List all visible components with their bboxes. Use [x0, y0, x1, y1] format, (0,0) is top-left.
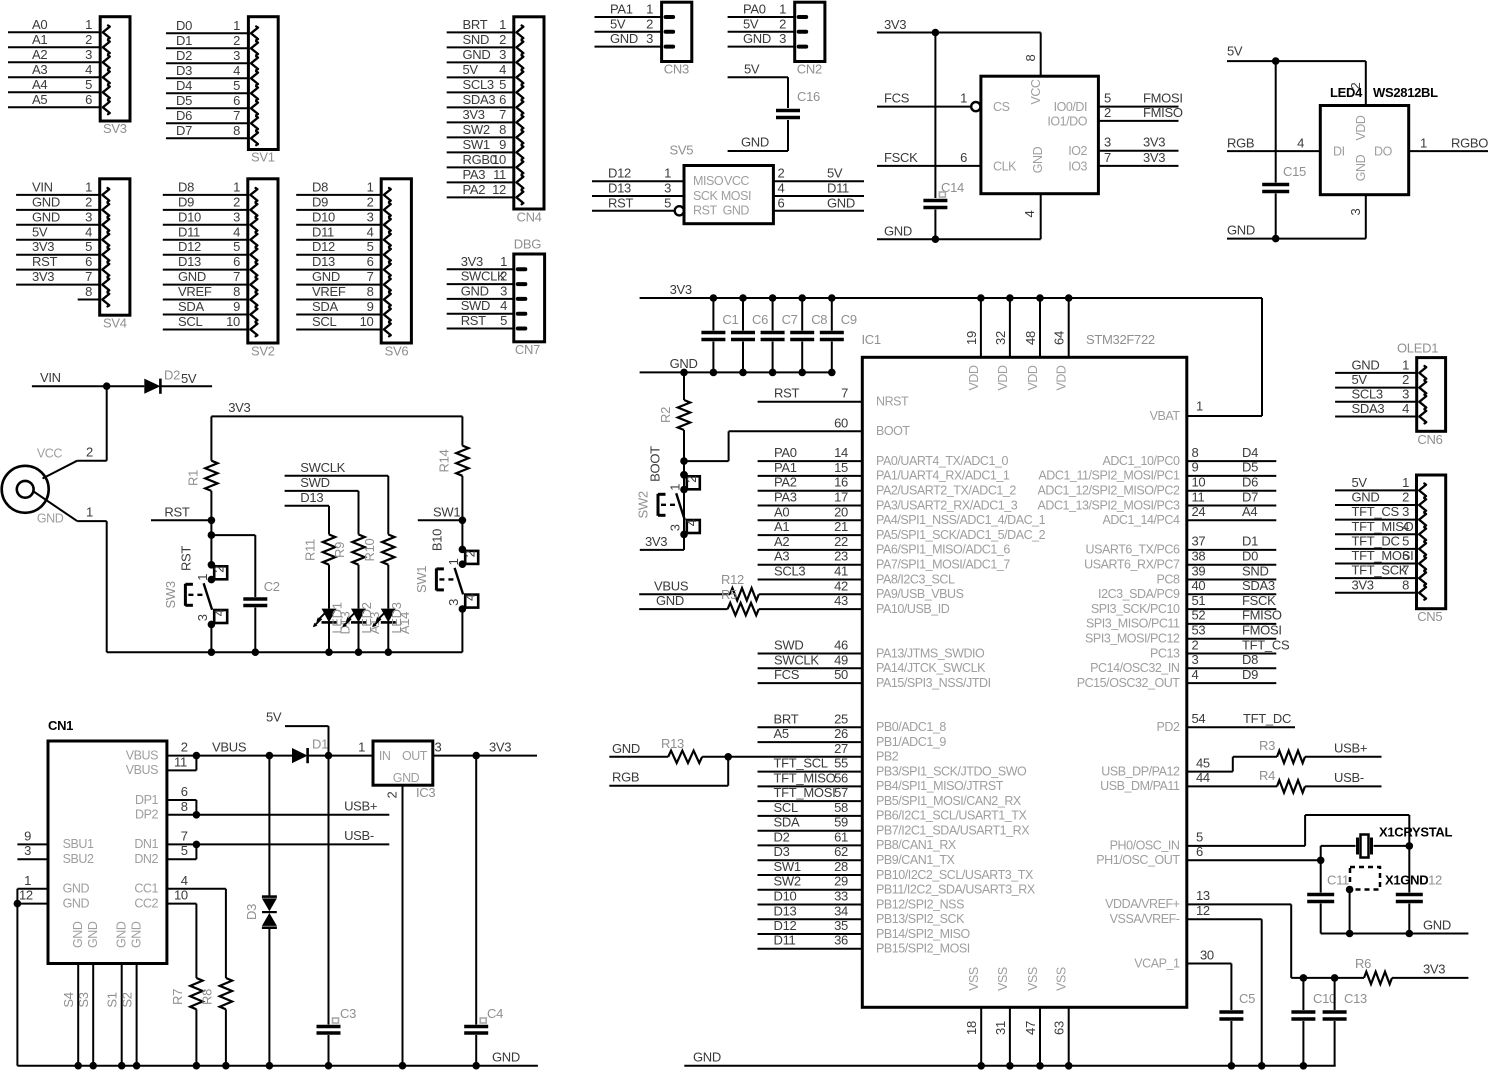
- IC1 STM32F722 body: [862, 332, 1187, 1007]
- svg-text:DP2: DP2: [135, 808, 158, 822]
- LED LED3: [372, 602, 412, 656]
- svg-text:SV1: SV1: [251, 150, 275, 165]
- CN1 inner bottom GND labels: [71, 921, 143, 948]
- svg-text:51: 51: [1192, 593, 1206, 608]
- wire D5 pin 9: [1187, 460, 1277, 476]
- wire FMISO pin2: [1098, 120, 1178, 122]
- svg-text:2: 2: [385, 791, 400, 798]
- wire LED4 GND pin3: [1365, 195, 1367, 239]
- svg-text:5V: 5V: [744, 61, 760, 76]
- svg-text:49: 49: [834, 652, 848, 667]
- svg-text:IC3: IC3: [416, 785, 435, 800]
- svg-text:55: 55: [834, 756, 848, 771]
- wire 3V3 pin3: [1098, 150, 1178, 152]
- wire D1 pin 37: [1187, 534, 1277, 550]
- svg-text:C15: C15: [1283, 164, 1306, 179]
- svg-text:29: 29: [834, 874, 848, 889]
- svg-text:USB_DM/PA11: USB_DM/PA11: [1100, 779, 1180, 793]
- svg-text:1: 1: [500, 254, 507, 269]
- capacitor C15: [1262, 61, 1306, 239]
- svg-text:3: 3: [446, 599, 461, 606]
- wire USB_DP pin 45: [1187, 755, 1277, 771]
- svg-text:PB1/ADC1_9: PB1/ADC1_9: [876, 735, 946, 749]
- svg-text:D11: D11: [312, 224, 334, 239]
- svg-text:D4: D4: [176, 78, 192, 93]
- junction 5V LED4: [1272, 57, 1280, 65]
- svg-text:RST: RST: [461, 313, 486, 328]
- svg-text:USB+: USB+: [344, 799, 377, 814]
- svg-text:PB9/CAN1_TX: PB9/CAN1_TX: [876, 853, 956, 867]
- capacitor C4: [464, 756, 503, 1070]
- svg-text:4: 4: [367, 224, 374, 239]
- svg-text:D13: D13: [608, 181, 631, 196]
- svg-text:IO2: IO2: [1068, 144, 1087, 158]
- svg-text:1: 1: [499, 17, 506, 32]
- pin 3 SBU2: [17, 843, 94, 866]
- svg-text:11: 11: [174, 754, 187, 769]
- connector SV1: [166, 17, 278, 150]
- svg-text:RST: RST: [774, 386, 799, 401]
- svg-text:CN4: CN4: [517, 210, 542, 225]
- svg-text:PA3/USART2_RX/ADC1_3: PA3/USART2_RX/ADC1_3: [876, 498, 1018, 512]
- svg-text:SW1: SW1: [774, 859, 801, 874]
- wire GND rail (CN1): [17, 1050, 538, 1066]
- svg-text:17: 17: [834, 490, 848, 505]
- svg-text:6: 6: [85, 254, 92, 269]
- wire LED4 VDD pin2: [1365, 61, 1367, 105]
- svg-text:43: 43: [834, 593, 848, 608]
- svg-text:2: 2: [778, 166, 785, 181]
- svg-text:1: 1: [646, 2, 653, 17]
- svg-text:D12: D12: [774, 918, 797, 933]
- svg-text:S1: S1: [105, 992, 120, 1007]
- wire D9 pin 4: [1187, 667, 1277, 683]
- svg-text:16: 16: [834, 475, 848, 490]
- svg-text:5V: 5V: [463, 62, 479, 77]
- connector CN6 OLED1: [1335, 340, 1446, 431]
- svg-text:R9: R9: [332, 542, 347, 558]
- pin 62 PB9/CAN1_TX: [758, 844, 956, 867]
- svg-text:FSCK: FSCK: [1242, 593, 1276, 608]
- svg-text:GND: GND: [32, 209, 60, 224]
- svg-text:24: 24: [1192, 504, 1206, 519]
- pin 5 DN2: [134, 843, 196, 866]
- svg-text:3: 3: [664, 181, 671, 196]
- svg-text:PB12/SPI2_NSS: PB12/SPI2_NSS: [876, 897, 964, 911]
- svg-text:RST: RST: [178, 546, 193, 571]
- svg-text:VDD: VDD: [1354, 115, 1368, 140]
- svg-text:8: 8: [499, 122, 506, 137]
- pin 10 CC2: [134, 888, 196, 978]
- svg-text:2: 2: [499, 32, 506, 47]
- pin 20 PA4/SPI1_NSS/ADC1_4/DAC_1: [758, 504, 1046, 527]
- svg-text:15: 15: [834, 460, 848, 475]
- svg-text:3: 3: [85, 209, 92, 224]
- svg-text:40: 40: [1192, 578, 1206, 593]
- svg-text:PA2: PA2: [774, 475, 797, 490]
- junction DN1: [193, 841, 201, 849]
- svg-text:SDA3: SDA3: [463, 92, 496, 107]
- svg-text:3V3: 3V3: [1143, 150, 1165, 165]
- svg-text:4: 4: [233, 63, 240, 78]
- svg-text:12: 12: [492, 182, 506, 197]
- svg-text:SV6: SV6: [385, 344, 409, 359]
- wire VDD pin 19: [964, 294, 985, 357]
- svg-text:IO0/DI: IO0/DI: [1054, 100, 1087, 114]
- resistor R12: [721, 572, 759, 601]
- svg-text:SCL3: SCL3: [1352, 386, 1383, 401]
- svg-text:D8: D8: [178, 179, 194, 194]
- capacitor C11: [1307, 873, 1349, 934]
- svg-text:31: 31: [993, 1021, 1008, 1035]
- svg-text:4: 4: [684, 519, 699, 526]
- svg-text:PA1: PA1: [610, 2, 633, 17]
- pin shield S4: [61, 964, 82, 1070]
- svg-text:GND: GND: [693, 1050, 721, 1065]
- svg-text:R3: R3: [1259, 738, 1275, 753]
- svg-text:SDA: SDA: [312, 299, 338, 314]
- svg-text:D11: D11: [178, 224, 200, 239]
- svg-text:CC1: CC1: [134, 882, 158, 896]
- svg-text:1: 1: [233, 18, 240, 33]
- svg-text:9: 9: [1192, 460, 1199, 475]
- svg-text:23: 23: [834, 549, 848, 564]
- svg-text:1: 1: [1196, 399, 1203, 414]
- svg-text:4: 4: [462, 594, 477, 601]
- svg-text:PB7/I2C1_SDA/USART1_RX: PB7/I2C1_SDA/USART1_RX: [876, 824, 1030, 838]
- svg-text:38: 38: [1192, 549, 1206, 564]
- svg-text:2: 2: [233, 194, 240, 209]
- svg-text:5: 5: [233, 78, 240, 93]
- pin 35 PB14/SPI2_MISO: [758, 918, 971, 941]
- svg-text:58: 58: [834, 800, 848, 815]
- svg-text:PA7/SPI1_MOSI/ADC1_7: PA7/SPI1_MOSI/ADC1_7: [876, 558, 1010, 572]
- capacitor C7: [761, 294, 798, 376]
- svg-text:3V3: 3V3: [461, 254, 483, 269]
- pin 21 PA5/SPI1_SCK/ADC1_5/DAC_2: [758, 519, 1046, 542]
- svg-text:7: 7: [233, 108, 240, 123]
- svg-text:3: 3: [233, 209, 240, 224]
- svg-text:IO1/DO: IO1/DO: [1047, 114, 1087, 128]
- connector CN4: [447, 17, 544, 209]
- svg-text:SBU1: SBU1: [63, 837, 94, 851]
- LED LED4 WS2812B body: [1320, 85, 1438, 195]
- pin 4 CC1: [134, 873, 226, 978]
- svg-text:D10: D10: [178, 209, 201, 224]
- svg-text:CN2: CN2: [797, 62, 822, 77]
- wire VCAP_1 pin 30: [1187, 947, 1232, 1010]
- svg-text:D2: D2: [164, 368, 180, 383]
- svg-text:5V: 5V: [181, 371, 197, 386]
- svg-text:SWD: SWD: [300, 475, 329, 490]
- svg-text:7: 7: [841, 386, 848, 401]
- svg-text:D6: D6: [176, 108, 192, 123]
- svg-text:61: 61: [834, 829, 848, 844]
- svg-text:D8: D8: [312, 179, 328, 194]
- junction 5V/C3: [325, 752, 333, 760]
- svg-text:52: 52: [1192, 608, 1206, 623]
- wire C16 to GND: [787, 120, 789, 151]
- svg-text:VCC: VCC: [37, 446, 62, 460]
- connector SV5 ISP: [592, 143, 864, 224]
- svg-text:R13: R13: [661, 736, 684, 751]
- wire VDD pin 48: [1023, 294, 1044, 357]
- junction PB2/RGB: [724, 753, 732, 761]
- svg-text:RGBO: RGBO: [1451, 136, 1488, 151]
- svg-text:4: 4: [499, 62, 506, 77]
- svg-text:5: 5: [500, 313, 507, 328]
- svg-text:PB2: PB2: [876, 750, 899, 764]
- svg-text:VDD: VDD: [967, 365, 981, 390]
- pin 7 DN1: [134, 828, 196, 851]
- svg-text:D9: D9: [178, 194, 194, 209]
- svg-text:3: 3: [1402, 386, 1409, 401]
- svg-text:PA0/UART4_TX/ADC1_0: PA0/UART4_TX/ADC1_0: [876, 454, 1009, 468]
- svg-text:ADC1_11/SPI2_MOSI/PC1: ADC1_11/SPI2_MOSI/PC1: [1038, 469, 1180, 483]
- svg-text:2: 2: [779, 16, 786, 31]
- capacitor C12: [1396, 873, 1442, 934]
- pin 16 PA2/USART2_TX/ADC1_2: [758, 475, 1017, 498]
- wire USB- (CN1): [196, 843, 389, 845]
- svg-text:C3: C3: [340, 1006, 356, 1021]
- svg-text:C16: C16: [797, 89, 820, 104]
- svg-text:SBU2: SBU2: [63, 852, 94, 866]
- pin 58 PB6/I2C1_SCL/USART1_TX: [758, 800, 1028, 823]
- junction flash 3V3: [932, 29, 940, 37]
- junction DP2: [193, 811, 201, 819]
- svg-text:41: 41: [834, 564, 848, 579]
- svg-text:63: 63: [1052, 1021, 1067, 1035]
- op-amp U1 flash IC body: [981, 76, 1099, 194]
- svg-text:PB3/SPI1_SCK/JTDO_SWO: PB3/SPI1_SCK/JTDO_SWO: [876, 764, 1027, 778]
- wire 3V3 out: [433, 755, 537, 757]
- svg-text:D7: D7: [1242, 489, 1258, 504]
- svg-text:2: 2: [462, 550, 477, 557]
- wire D4 pin 8: [1187, 445, 1277, 461]
- svg-text:A4: A4: [1242, 504, 1257, 519]
- svg-text:GND: GND: [461, 283, 489, 298]
- svg-text:8: 8: [85, 284, 92, 299]
- svg-text:D2: D2: [774, 829, 790, 844]
- diode D2: [144, 368, 180, 394]
- svg-text:USB-: USB-: [344, 828, 374, 843]
- svg-text:3V3: 3V3: [228, 400, 250, 415]
- svg-text:SWD: SWD: [461, 298, 490, 313]
- svg-text:WS2812BL: WS2812BL: [1373, 85, 1438, 100]
- pin 9 SBU1: [17, 828, 94, 851]
- svg-text:5: 5: [1402, 533, 1409, 548]
- svg-text:C4: C4: [487, 1006, 503, 1021]
- svg-text:3V3: 3V3: [463, 107, 485, 122]
- svg-text:D0: D0: [176, 18, 192, 33]
- pin 17 PA3/USART2_RX/ADC1_3: [758, 490, 1018, 513]
- svg-text:2: 2: [181, 740, 188, 755]
- voltage regulator IC3: [358, 740, 441, 801]
- svg-text:SW2: SW2: [636, 491, 651, 518]
- svg-text:ADC1_12/SPI2_MISO/PC2: ADC1_12/SPI2_MISO/PC2: [1037, 484, 1180, 498]
- svg-text:3: 3: [1348, 208, 1363, 215]
- svg-text:D13: D13: [178, 254, 201, 269]
- svg-text:10: 10: [174, 888, 188, 903]
- pin 15 PA1/UART4_RX/ADC1_1: [758, 460, 1010, 483]
- switch SW1: [414, 520, 478, 652]
- svg-text:PA4/SPI1_NSS/ADC1_4/DAC_1: PA4/SPI1_NSS/ADC1_4/DAC_1: [876, 513, 1046, 527]
- wire A4 pin 24: [1187, 504, 1277, 520]
- svg-text:46: 46: [834, 638, 848, 653]
- svg-text:C13: C13: [1344, 991, 1367, 1006]
- svg-text:2: 2: [85, 194, 92, 209]
- svg-text:5V: 5V: [266, 710, 282, 725]
- svg-text:GND: GND: [1423, 917, 1451, 932]
- wire GND (crystal): [1321, 917, 1469, 937]
- connector SV4: [16, 179, 130, 315]
- capacitor C5: [1219, 991, 1255, 1070]
- wire SDA3 pin 40: [1187, 578, 1277, 594]
- svg-text:4: 4: [1402, 519, 1409, 534]
- resistor R3: [1259, 738, 1305, 763]
- svg-text:8: 8: [233, 284, 240, 299]
- svg-text:VDDA/VREF+: VDDA/VREF+: [1105, 897, 1179, 911]
- svg-text:GND: GND: [130, 921, 144, 948]
- svg-text:3: 3: [668, 524, 683, 531]
- svg-text:VBAT: VBAT: [1150, 409, 1181, 423]
- svg-text:VCAP_1: VCAP_1: [1134, 956, 1180, 970]
- svg-text:D13: D13: [774, 903, 797, 918]
- svg-text:19: 19: [964, 331, 979, 345]
- svg-text:R1: R1: [186, 470, 201, 486]
- svg-text:PB13/SPI2_SCK: PB13/SPI2_SCK: [876, 912, 965, 926]
- svg-text:D7: D7: [176, 123, 192, 138]
- svg-text:DN1: DN1: [134, 837, 158, 851]
- resistor R1: [186, 416, 218, 520]
- svg-text:SV2: SV2: [251, 344, 275, 359]
- junction RST: [208, 517, 216, 525]
- svg-text:SWCLK: SWCLK: [300, 460, 345, 475]
- svg-text:VSS: VSS: [967, 967, 981, 991]
- svg-text:DI: DI: [1333, 145, 1345, 159]
- svg-text:D10: D10: [312, 209, 335, 224]
- resistor R11: [303, 535, 336, 609]
- junction BOOT: [680, 457, 688, 465]
- svg-text:GND: GND: [1031, 146, 1045, 173]
- svg-text:9: 9: [367, 299, 374, 314]
- svg-text:A14: A14: [397, 612, 412, 634]
- svg-text:5: 5: [664, 195, 671, 210]
- svg-text:1: 1: [85, 17, 92, 32]
- svg-text:3: 3: [500, 283, 507, 298]
- wire flash VCC pin 8: [1040, 33, 1042, 77]
- pin 42 PA9/USB_VBUS: [834, 578, 963, 601]
- IC1 right side pin names: [1037, 409, 1180, 971]
- svg-text:PB0/ADC1_8: PB0/ADC1_8: [876, 720, 946, 734]
- pin 29 PB11/I2C2_SDA/USART3_RX: [758, 874, 1036, 897]
- svg-text:3V3: 3V3: [1352, 577, 1374, 592]
- svg-text:R11: R11: [303, 539, 318, 561]
- svg-text:TFT_DC: TFT_DC: [1243, 711, 1291, 726]
- wire RST to SW3/C2: [210, 520, 212, 565]
- svg-text:3: 3: [24, 843, 31, 858]
- svg-text:B10: B10: [429, 529, 444, 551]
- pin 41 PA8/I2C3_SCL: [758, 564, 955, 587]
- connector SV6: [296, 179, 411, 343]
- svg-text:60: 60: [834, 415, 848, 430]
- svg-text:PB15/SPI2_MOSI: PB15/SPI2_MOSI: [876, 942, 970, 956]
- svg-text:S4: S4: [61, 992, 76, 1007]
- svg-text:TFT_MISO: TFT_MISO: [774, 770, 836, 785]
- svg-text:FMISO: FMISO: [1242, 608, 1282, 623]
- svg-text:10: 10: [360, 314, 374, 329]
- svg-text:D13: D13: [338, 611, 353, 634]
- svg-text:28: 28: [834, 859, 848, 874]
- wire FMISO pin 52: [1187, 608, 1282, 624]
- svg-text:IN: IN: [379, 749, 391, 763]
- svg-text:A2: A2: [774, 534, 789, 549]
- svg-text:64: 64: [1052, 331, 1067, 345]
- svg-text:36: 36: [834, 933, 848, 948]
- pin shield S3: [76, 964, 97, 1070]
- svg-text:7: 7: [367, 269, 374, 284]
- svg-text:PA13/JTMS_SWDIO: PA13/JTMS_SWDIO: [876, 646, 985, 660]
- svg-text:47: 47: [1023, 1021, 1038, 1035]
- junction VBUS/D3: [266, 752, 274, 760]
- svg-text:2: 2: [367, 194, 374, 209]
- svg-text:2: 2: [211, 566, 226, 573]
- svg-text:20: 20: [834, 504, 848, 519]
- svg-text:SPI3_MISO/PC11: SPI3_MISO/PC11: [1086, 617, 1180, 631]
- svg-text:R8: R8: [200, 989, 215, 1005]
- svg-text:R5: R5: [721, 587, 737, 602]
- svg-text:GND: GND: [1352, 357, 1380, 372]
- svg-text:PA8/I2C3_SCL: PA8/I2C3_SCL: [876, 572, 955, 586]
- svg-text:5: 5: [1196, 830, 1203, 845]
- pin 28 PB10/I2C2_SCL/USART3_TX: [758, 859, 1034, 882]
- svg-text:PA0: PA0: [774, 445, 797, 460]
- svg-text:8: 8: [1023, 54, 1038, 61]
- wire USB+: [1305, 756, 1382, 758]
- wire VDDA pin 13: [1187, 888, 1291, 978]
- svg-text:8: 8: [367, 284, 374, 299]
- svg-text:CN7: CN7: [515, 342, 540, 357]
- svg-text:1: 1: [960, 91, 967, 106]
- wire VSS pins to GND rail: [964, 1007, 1072, 1069]
- svg-text:USART6_TX/PC6: USART6_TX/PC6: [1086, 543, 1180, 557]
- svg-text:D2: D2: [176, 48, 192, 63]
- svg-text:PA6/SPI1_MISO/ADC1_6: PA6/SPI1_MISO/ADC1_6: [876, 543, 1010, 557]
- svg-text:10: 10: [1192, 475, 1206, 490]
- svg-text:X1CRYSTAL: X1CRYSTAL: [1379, 825, 1453, 840]
- svg-text:1: 1: [233, 179, 240, 194]
- svg-text:GND: GND: [178, 269, 206, 284]
- svg-text:45: 45: [1196, 755, 1210, 770]
- svg-text:BRT: BRT: [463, 17, 488, 32]
- svg-text:D10: D10: [774, 889, 797, 904]
- wire crystal left branch: [1320, 846, 1322, 893]
- svg-text:SV5: SV5: [670, 143, 694, 158]
- wire GND rail (MCU bottom): [684, 1050, 1335, 1066]
- resistor R10: [362, 535, 395, 609]
- svg-text:10: 10: [226, 314, 240, 329]
- svg-text:1: 1: [1402, 357, 1409, 372]
- wire CN1 GND to rail: [16, 889, 18, 1066]
- connector CN7 DBG: [447, 237, 545, 342]
- wire USB+ (CN1): [196, 814, 389, 816]
- svg-text:3: 3: [1402, 504, 1409, 519]
- svg-text:35: 35: [834, 918, 848, 933]
- wire VDD pin 64: [1052, 294, 1073, 357]
- wire 3V3 filter row: [1291, 974, 1364, 982]
- svg-text:C9: C9: [841, 312, 857, 327]
- svg-text:RST: RST: [164, 505, 189, 520]
